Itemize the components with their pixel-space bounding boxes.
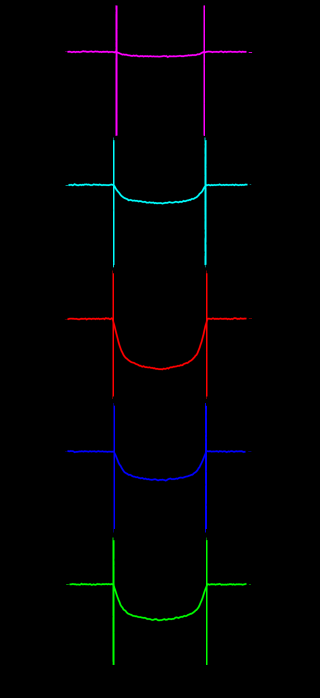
blue left contact line — [112, 406, 116, 529]
cyan right contact line thin bottom tail — [204, 264, 206, 268]
cyan right contact line thin top tail — [204, 138, 206, 142]
red light curve right end dash — [249, 318, 252, 320]
magenta light curve — [68, 51, 247, 57]
blue left contact line thin top tail — [113, 403, 115, 407]
cyan left contact line thin top tail — [112, 138, 114, 142]
blue right contact line thin bottom tail — [205, 529, 207, 533]
green light curve faint left end — [66, 584, 69, 586]
blue light curve — [68, 451, 246, 481]
red left contact line thin bottom tail — [112, 396, 114, 400]
blue right contact line — [204, 406, 208, 529]
red light curve faint left end — [65, 318, 68, 320]
cyan light curve right end dash — [250, 184, 252, 186]
green right contact line — [205, 540, 209, 665]
red light curve — [68, 318, 247, 369]
red left contact line — [111, 273, 115, 396]
red left contact line thin top tail — [112, 271, 114, 275]
cyan light curve — [69, 184, 248, 203]
green light curve — [70, 584, 247, 621]
cyan right contact line — [205, 140, 206, 265]
red right contact line — [205, 273, 209, 396]
chart: five stacked eclipse light curves — [0, 0, 256, 698]
green left contact line — [111, 540, 115, 665]
green right contact line thin top tail — [205, 538, 207, 542]
cyan light curve faint left end — [66, 184, 69, 186]
blue light curve faint left end — [65, 451, 68, 453]
magenta light curve faint left end — [65, 51, 68, 53]
blue light curve right end dash — [248, 451, 251, 453]
cyan left contact line thin bottom tail — [112, 264, 114, 268]
cyan left contact line — [112, 140, 116, 265]
magenta light curve right end dash — [249, 52, 252, 54]
red right contact line thin top tail — [205, 271, 207, 275]
magenta left contact line — [114, 6, 118, 136]
red right contact line thin bottom tail — [205, 396, 207, 400]
magenta right contact line — [202, 6, 206, 136]
blue left contact line thin bottom tail — [113, 529, 115, 533]
blue right contact line thin top tail — [204, 403, 206, 407]
green left contact line thin top tail — [112, 538, 114, 542]
green light curve right end dash — [249, 584, 251, 586]
